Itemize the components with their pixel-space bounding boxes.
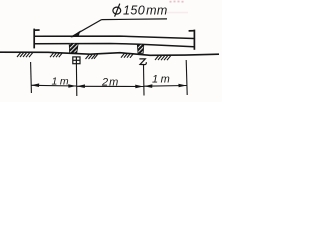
witness line under B (x~143.5) [143,65,146,96]
shaft left end cap [34,29,39,49]
dimension line 2m segment [77,85,144,87]
witness line under A (x~76) [75,64,77,96]
arrow right-1m right end [178,84,186,88]
arrow at left witness pointing left [31,83,39,87]
faint pink dotted marks (scan bleed, top right) [170,1,184,3]
ground line [0,52,219,55]
svg-text:1m: 1m [152,74,170,86]
witness line right (x~186.5) [186,60,187,95]
witness line left (x~31) [30,62,33,93]
arrow 2m left [77,84,85,88]
svg-text:1m: 1m [52,75,69,87]
label phi150mm: phi symbol (drawn) [113,4,121,17]
svg-text:2m: 2m [101,77,118,89]
leader line horizontal under label [102,18,168,21]
shaft right end cap [189,30,195,50]
label jia (Chinese 甲) for support A [73,57,80,64]
shaft top line [35,36,194,38]
leader arrowhead at shaft [71,30,81,37]
leader line diagonal [73,20,102,37]
ground hatch group 3 [86,54,98,59]
support B (hatched block under shaft, right) [137,44,144,53]
ground hatch group 1 (left edge) [17,53,33,58]
svg-text:150mm: 150mm [123,4,168,18]
arrow right-1m left end [144,84,152,88]
ground hatch group 5 [155,56,171,61]
arrow 2m right [135,85,143,89]
dimension line 1m left segment [31,84,76,87]
label yi (Chinese 乙) for support B [139,59,146,65]
arrow at mid witness pointing right [68,84,76,88]
support A (hatched block under shaft, left) [69,43,78,52]
ground hatch group 4 [121,53,134,58]
faint pink smear line [166,12,188,14]
shaft bottom line [35,44,194,47]
dimension line 1m right segment [144,85,187,88]
ground hatch group 2 [50,53,62,57]
